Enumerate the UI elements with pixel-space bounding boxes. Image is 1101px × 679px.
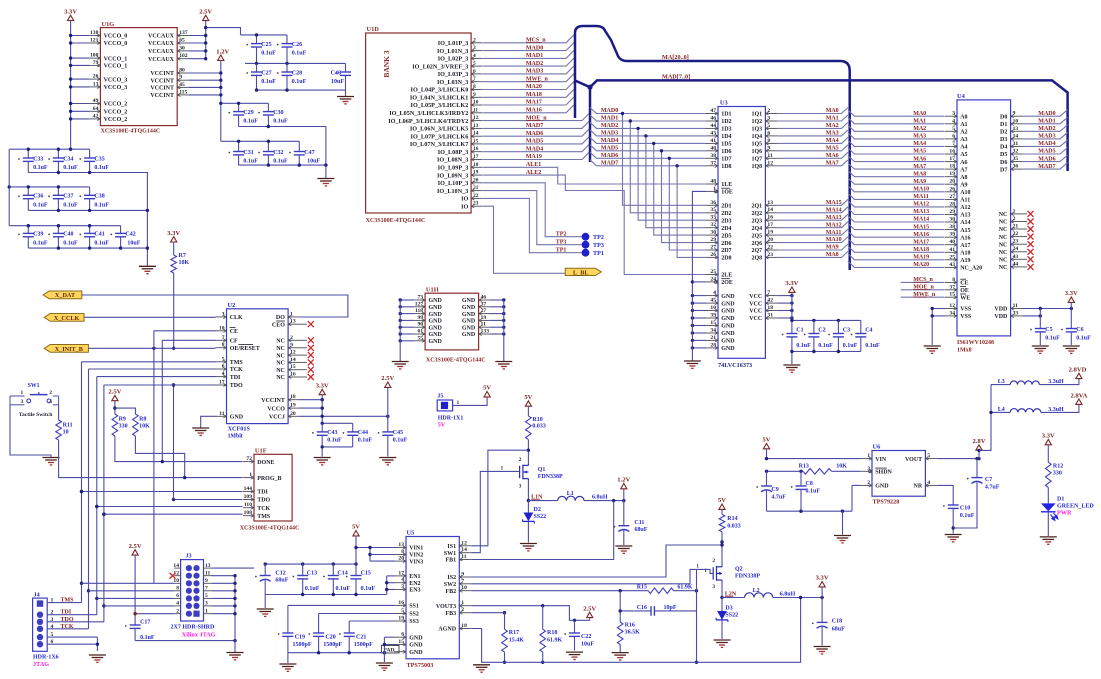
svg-text:0.1uF: 0.1uF bbox=[292, 79, 307, 85]
svg-text:2: 2 bbox=[712, 558, 715, 564]
svg-text:5: 5 bbox=[51, 632, 54, 638]
svg-text:IO_L08P_3: IO_L08P_3 bbox=[438, 149, 469, 156]
svg-text:29: 29 bbox=[949, 209, 955, 215]
wire U1H left pin 127 bbox=[400, 306, 414, 308]
svg-text:MAD1: MAD1 bbox=[601, 116, 618, 122]
ground (U4 VSS) bbox=[924, 346, 941, 353]
wire U1H right pin 37 bbox=[490, 306, 504, 308]
svg-text:NC: NC bbox=[999, 258, 1008, 264]
svg-text:2D4: 2D4 bbox=[721, 226, 731, 232]
svg-text:31: 31 bbox=[1013, 141, 1019, 147]
svg-text:6.8uH: 6.8uH bbox=[780, 592, 796, 598]
svg-text:MAD3: MAD3 bbox=[526, 69, 543, 75]
svg-text:C9: C9 bbox=[771, 487, 778, 493]
svg-text:2D8: 2D8 bbox=[721, 256, 731, 262]
svg-text:1D5: 1D5 bbox=[721, 142, 731, 148]
svg-text:AGND: AGND bbox=[438, 627, 456, 633]
svg-text:0.1uF: 0.1uF bbox=[33, 165, 48, 171]
svg-text:6: 6 bbox=[51, 639, 54, 645]
svg-text:0.1uF: 0.1uF bbox=[261, 51, 276, 57]
port L_BL flag bbox=[565, 268, 601, 275]
ground (U1H left) bbox=[392, 362, 409, 369]
svg-text:19: 19 bbox=[481, 315, 487, 321]
svg-text:10: 10 bbox=[63, 429, 69, 435]
svg-text:U5: U5 bbox=[407, 530, 415, 537]
svg-text:NC: NC bbox=[276, 375, 285, 381]
svg-text:30: 30 bbox=[179, 45, 185, 51]
svg-text:C16: C16 bbox=[637, 605, 647, 611]
wire J3 pin2 row (2.5V) bbox=[135, 613, 174, 615]
svg-text:5: 5 bbox=[767, 123, 770, 129]
svg-text:0.1uF: 0.1uF bbox=[327, 438, 342, 444]
op U1H FPGA ground pins (XC3S100E-4TQG144C) bbox=[425, 293, 479, 350]
ground (C19-C21) bbox=[279, 664, 296, 671]
svg-text:IO_L05N_3/LHCLK3/IRDY2: IO_L05N_3/LHCLK3/IRDY2 bbox=[389, 110, 468, 117]
svg-text:C41: C41 bbox=[94, 232, 104, 238]
svg-text:NR: NR bbox=[914, 484, 923, 490]
svg-text:34: 34 bbox=[710, 328, 716, 334]
svg-text:C19: C19 bbox=[295, 635, 305, 641]
svg-text:5: 5 bbox=[401, 608, 404, 614]
resistor R15 61.9K bbox=[648, 588, 673, 594]
svg-text:XC3S100E-4TQG144C: XC3S100E-4TQG144C bbox=[240, 525, 300, 531]
svg-text:CE: CE bbox=[960, 281, 968, 287]
svg-text:PROG_B: PROG_B bbox=[257, 476, 281, 482]
svg-text:1: 1 bbox=[696, 564, 699, 570]
svg-text:1: 1 bbox=[21, 390, 24, 396]
svg-text:0.1uF: 0.1uF bbox=[336, 586, 351, 592]
wire row3 bottom rail bbox=[28, 247, 147, 249]
wire Q1 source to L1N node bbox=[527, 480, 529, 501]
svg-text:A16: A16 bbox=[960, 235, 970, 241]
svg-text:23: 23 bbox=[767, 252, 773, 258]
svg-text:OE: OE bbox=[960, 288, 969, 294]
svg-text:2OE: 2OE bbox=[721, 280, 733, 286]
svg-text:2Q6: 2Q6 bbox=[752, 241, 763, 247]
svg-text:1Q5: 1Q5 bbox=[752, 142, 763, 148]
svg-text:R11: R11 bbox=[63, 422, 73, 428]
svg-text:61.9K: 61.9K bbox=[677, 584, 693, 590]
op U2 XCF01S config PROM bbox=[227, 309, 289, 424]
svg-text:MAD3: MAD3 bbox=[1038, 134, 1055, 140]
svg-text:22: 22 bbox=[473, 193, 479, 199]
wire U5 SS3 to C21 bbox=[349, 620, 394, 622]
svg-text:102: 102 bbox=[179, 53, 188, 59]
svg-text:2Q5: 2Q5 bbox=[752, 233, 763, 239]
wire R15 to Q2 gate net bbox=[674, 590, 697, 592]
svg-text:Q2: Q2 bbox=[735, 566, 743, 572]
svg-text:VCCJ: VCCJ bbox=[269, 415, 285, 421]
svg-text:61: 61 bbox=[418, 329, 424, 335]
svg-text:MA9: MA9 bbox=[913, 179, 926, 185]
wire MAD4 branch to 2D5 bbox=[654, 143, 706, 235]
svg-text:FB1: FB1 bbox=[445, 558, 456, 564]
resistor R9 330 bbox=[112, 414, 118, 436]
svg-text:1.2V: 1.2V bbox=[216, 48, 229, 55]
svg-text:C44: C44 bbox=[358, 430, 368, 436]
svg-text:TCK: TCK bbox=[257, 506, 270, 512]
capacitor C32 bbox=[258, 152, 260, 154]
svg-text:NC: NC bbox=[999, 220, 1008, 226]
wire 2.5V vertical to VCCAUX pins bbox=[205, 21, 207, 59]
op U1G FPGA bank (XC3S100E-4TQG144C) bbox=[100, 28, 177, 126]
wire MAD3 branch to 2D4 bbox=[646, 136, 706, 228]
wire L3 to 2.8VD bbox=[1039, 379, 1079, 385]
wire TMS vertical bbox=[81, 362, 83, 603]
svg-text:SS2: SS2 bbox=[409, 612, 419, 618]
capacitor C37 bbox=[48, 195, 50, 197]
svg-text:A12: A12 bbox=[960, 205, 970, 211]
svg-text:3: 3 bbox=[21, 399, 24, 405]
wire net MA15 from 2Q bbox=[777, 199, 848, 205]
svg-text:MA0: MA0 bbox=[826, 108, 839, 114]
svg-text:20: 20 bbox=[767, 237, 773, 243]
svg-text:GND: GND bbox=[721, 346, 735, 352]
svg-text:2: 2 bbox=[51, 610, 54, 616]
capacitor C38 bbox=[79, 195, 81, 197]
svg-text:2D5: 2D5 bbox=[721, 233, 731, 239]
svg-text:VCCINT: VCCINT bbox=[150, 86, 174, 92]
svg-text:3: 3 bbox=[767, 116, 770, 122]
svg-text:6: 6 bbox=[176, 593, 179, 599]
wire FB1 to 1.2V node bbox=[471, 501, 613, 560]
svg-text:IO_L01N_3: IO_L01N_3 bbox=[437, 48, 468, 55]
svg-text:10uF: 10uF bbox=[127, 241, 140, 247]
svg-text:TP3: TP3 bbox=[593, 242, 604, 249]
svg-text:A0: A0 bbox=[960, 114, 967, 120]
svg-text:J3: J3 bbox=[185, 553, 191, 560]
svg-text:TP3: TP3 bbox=[556, 239, 567, 245]
svg-text:14: 14 bbox=[1013, 133, 1019, 139]
wire VCCAUX pin 102 bbox=[188, 58, 206, 60]
svg-text:FDN338P: FDN338P bbox=[735, 574, 760, 580]
svg-text:NC: NC bbox=[999, 242, 1008, 248]
wire net MA13 from 2Q bbox=[777, 214, 848, 220]
svg-text:VDD: VDD bbox=[994, 314, 1008, 320]
svg-text:IS1: IS1 bbox=[447, 544, 456, 550]
svg-text:9: 9 bbox=[179, 75, 182, 81]
wire C19-C21 bottom rail bbox=[288, 652, 385, 654]
diode D2 SS22 bbox=[527, 501, 529, 513]
wire J3 pin13 row bbox=[212, 567, 254, 569]
wire net MA12 to U4 bbox=[848, 201, 945, 207]
svg-text:3: 3 bbox=[473, 45, 476, 51]
ground (C18) bbox=[814, 647, 831, 654]
svg-text:0.1uF: 0.1uF bbox=[94, 240, 109, 246]
svg-text:10uF: 10uF bbox=[581, 641, 594, 647]
svg-text:A1: A1 bbox=[960, 122, 967, 128]
svg-text:MA15: MA15 bbox=[913, 224, 929, 230]
svg-text:GND: GND bbox=[230, 415, 244, 421]
svg-text:A8: A8 bbox=[960, 175, 967, 181]
svg-text:20: 20 bbox=[473, 177, 479, 183]
transistor Q1 FDN338P bbox=[520, 464, 529, 480]
svg-text:VCCO_1: VCCO_1 bbox=[104, 56, 128, 62]
svg-text:C31: C31 bbox=[243, 150, 253, 156]
svg-text:38: 38 bbox=[710, 153, 716, 159]
svg-text:8: 8 bbox=[952, 277, 955, 283]
svg-text:MA6: MA6 bbox=[913, 156, 926, 162]
svg-text:2: 2 bbox=[461, 607, 464, 613]
wire net MAD1 to bus bbox=[482, 50, 574, 58]
svg-text:37: 37 bbox=[949, 284, 955, 290]
wire VCCO pin 49 bbox=[71, 103, 90, 105]
svg-text:J5: J5 bbox=[437, 393, 443, 400]
wire J4 pin 2 bbox=[47, 614, 97, 616]
capacitor C45 bbox=[387, 387, 389, 432]
wire Q1 gate to SW1 bbox=[471, 471, 519, 552]
svg-text:C29: C29 bbox=[243, 110, 253, 116]
svg-text:U2: U2 bbox=[228, 302, 236, 309]
svg-text:12: 12 bbox=[949, 303, 955, 309]
svg-text:C7: C7 bbox=[985, 477, 992, 483]
svg-text:C13: C13 bbox=[307, 571, 317, 577]
svg-text:TP1: TP1 bbox=[556, 247, 567, 253]
wire U2 TMS row bbox=[82, 361, 216, 363]
svg-text:11: 11 bbox=[1013, 303, 1018, 309]
no-connect X on U4 NC pin 1 bbox=[1023, 213, 1027, 215]
svg-text:1Q1: 1Q1 bbox=[752, 112, 763, 118]
svg-text:16: 16 bbox=[398, 600, 404, 606]
svg-text:NC: NC bbox=[999, 265, 1008, 271]
svg-text:TMS: TMS bbox=[61, 598, 75, 604]
svg-text:1Q2: 1Q2 bbox=[752, 119, 763, 125]
svg-text:1500pF: 1500pF bbox=[323, 642, 342, 648]
svg-text:MAD3: MAD3 bbox=[601, 131, 618, 137]
svg-text:79: 79 bbox=[93, 60, 99, 66]
no-connect X on U4 NC pin 23 bbox=[1023, 243, 1027, 245]
svg-text:16: 16 bbox=[949, 149, 955, 155]
svg-text:37: 37 bbox=[481, 301, 487, 307]
svg-text:A5: A5 bbox=[960, 152, 967, 158]
capacitor C44 bbox=[343, 432, 345, 434]
svg-text:MAD7: MAD7 bbox=[1038, 164, 1055, 170]
svg-text:GND: GND bbox=[721, 301, 735, 307]
capacitor C43 bbox=[322, 422, 353, 424]
wire VCCO pin 138 bbox=[71, 35, 90, 37]
capacitor C12 68uF bbox=[255, 576, 257, 578]
wire U3 VCC pin 42 bbox=[777, 302, 792, 304]
svg-text:D1: D1 bbox=[1057, 497, 1064, 503]
svg-text:VIN2: VIN2 bbox=[409, 553, 423, 559]
svg-text:19: 19 bbox=[767, 230, 773, 236]
svg-text:TMS: TMS bbox=[230, 360, 244, 366]
wire net MCS_n to bus bbox=[482, 35, 574, 43]
wire net MA15 to U4 bbox=[848, 224, 945, 230]
svg-text:C20: C20 bbox=[325, 635, 335, 641]
svg-text:20: 20 bbox=[398, 556, 404, 562]
svg-text:1Q3: 1Q3 bbox=[752, 127, 763, 133]
svg-text:GND: GND bbox=[875, 484, 889, 490]
svg-text:D7: D7 bbox=[1000, 167, 1007, 173]
svg-text:330: 330 bbox=[119, 423, 128, 429]
svg-text:R12: R12 bbox=[1053, 463, 1063, 469]
wire net MA10 from 2Q bbox=[777, 237, 848, 243]
wire J4 pin 5 bbox=[47, 636, 97, 638]
capacitor C22 10uF bbox=[564, 633, 566, 635]
wire U5 EN pins rail bbox=[387, 575, 395, 577]
wire VCCAUX pin 65 bbox=[188, 42, 206, 44]
capacitor C35 bbox=[79, 158, 81, 160]
svg-text:6: 6 bbox=[473, 68, 476, 74]
wire IO pin to L_BL flag bbox=[482, 206, 565, 273]
svg-text:10K: 10K bbox=[139, 423, 150, 429]
svg-text:21: 21 bbox=[1013, 224, 1019, 230]
wire net MAD0 from U4 bbox=[1023, 110, 1068, 117]
port X_DAT bbox=[43, 291, 82, 299]
svg-text:CF: CF bbox=[230, 339, 238, 345]
ground (C5) bbox=[1032, 346, 1049, 353]
svg-text:21: 21 bbox=[473, 185, 479, 191]
svg-text:MA16: MA16 bbox=[526, 108, 542, 114]
wire net MA2 bbox=[777, 122, 848, 128]
svg-text:22: 22 bbox=[1013, 231, 1019, 237]
wire U1H right pin 19 bbox=[490, 319, 504, 321]
svg-text:MAD0: MAD0 bbox=[526, 45, 543, 51]
wire TDO vertical bbox=[103, 385, 105, 622]
svg-text:A9: A9 bbox=[960, 182, 967, 188]
wire CF row bbox=[162, 339, 215, 341]
svg-text:TDO: TDO bbox=[257, 498, 270, 504]
wire D1 to ground bbox=[1047, 512, 1049, 536]
bus MA[20..0] bbox=[575, 26, 850, 270]
svg-text:J4: J4 bbox=[34, 591, 40, 598]
svg-text:R14: R14 bbox=[727, 516, 737, 522]
svg-text:25: 25 bbox=[949, 254, 955, 260]
svg-text:TMS: TMS bbox=[257, 514, 271, 520]
wire MAD7 branch to 2D8 bbox=[677, 166, 706, 258]
svg-text:15: 15 bbox=[710, 320, 716, 326]
svg-text:4: 4 bbox=[401, 577, 404, 583]
svg-text:C18: C18 bbox=[832, 619, 842, 625]
svg-text:3: 3 bbox=[205, 601, 208, 607]
svg-text:2: 2 bbox=[176, 608, 179, 614]
svg-text:10K: 10K bbox=[836, 464, 847, 470]
svg-text:VIN: VIN bbox=[875, 457, 887, 463]
no-connect X on J3 pin 12 bbox=[170, 573, 176, 579]
svg-text:2: 2 bbox=[867, 480, 870, 486]
wire U3 VCC pin 7 bbox=[777, 295, 792, 297]
svg-text:18: 18 bbox=[949, 164, 955, 170]
svg-text:NC: NC bbox=[999, 235, 1008, 241]
svg-text:19: 19 bbox=[398, 616, 404, 622]
svg-text:90: 90 bbox=[418, 322, 424, 328]
svg-text:2Q4: 2Q4 bbox=[752, 226, 763, 232]
svg-text:1D7: 1D7 bbox=[721, 157, 731, 163]
svg-text:1Q7: 1Q7 bbox=[752, 157, 763, 163]
svg-text:10: 10 bbox=[461, 585, 467, 591]
svg-text:U4: U4 bbox=[957, 93, 966, 100]
svg-text:9: 9 bbox=[205, 578, 208, 584]
svg-text:IO: IO bbox=[461, 203, 468, 210]
svg-text:VOUT: VOUT bbox=[905, 457, 922, 463]
inductor L1 6.8uH bbox=[528, 500, 557, 502]
wire U1H left ground rail bbox=[399, 300, 401, 361]
wire net MAD6 from U4 bbox=[1023, 155, 1068, 162]
wire net MA10 to U4 bbox=[848, 186, 945, 192]
wire net MA1 bbox=[777, 115, 848, 121]
svg-text:VCCAUX: VCCAUX bbox=[148, 34, 175, 40]
svg-text:MA14: MA14 bbox=[913, 217, 929, 223]
wire net MA8 from 2Q bbox=[777, 251, 848, 257]
svg-text:18: 18 bbox=[767, 305, 773, 311]
svg-text:MA4: MA4 bbox=[913, 141, 926, 147]
svg-text:C27: C27 bbox=[261, 70, 271, 76]
no-connect X on U4 NC pin 21 bbox=[1023, 228, 1027, 230]
wire net MA20 to bus bbox=[482, 82, 574, 90]
svg-text:5: 5 bbox=[952, 126, 955, 132]
svg-text:C28: C28 bbox=[292, 70, 302, 76]
wire U1F TCK row bbox=[97, 506, 243, 508]
port X_INIT_B bbox=[44, 345, 88, 353]
op U3 latch 74LVC16373 bbox=[718, 107, 765, 359]
svg-text:11: 11 bbox=[205, 570, 210, 576]
svg-text:4: 4 bbox=[927, 480, 930, 486]
svg-text:VCCINT: VCCINT bbox=[150, 93, 174, 99]
inductor L4 3.3uH bbox=[991, 411, 1010, 413]
svg-text:A19: A19 bbox=[960, 258, 970, 264]
svg-text:C33: C33 bbox=[33, 156, 43, 162]
wire net MCS_n to U4 bbox=[901, 281, 945, 283]
svg-text:48: 48 bbox=[710, 179, 716, 185]
svg-text:12: 12 bbox=[290, 350, 296, 356]
svg-text:IS61WV10248: IS61WV10248 bbox=[957, 340, 994, 346]
svg-text:3: 3 bbox=[952, 111, 955, 117]
wire U1F TDI row bbox=[82, 491, 243, 493]
ground (C1-C4) bbox=[783, 365, 800, 372]
svg-text:NC_A20: NC_A20 bbox=[960, 266, 982, 272]
svg-text:MA4: MA4 bbox=[826, 138, 839, 144]
svg-text:SS3: SS3 bbox=[409, 619, 419, 625]
svg-text:31: 31 bbox=[767, 313, 773, 319]
svg-text:0.1uF: 0.1uF bbox=[796, 343, 811, 349]
wire U2 GND pin to ground bbox=[201, 416, 216, 427]
svg-text:R17: R17 bbox=[509, 630, 519, 636]
svg-text:14: 14 bbox=[767, 207, 773, 213]
capacitor C18 68uF bbox=[812, 623, 814, 625]
wire 2.5V to C17 bbox=[134, 555, 136, 625]
svg-text:C17: C17 bbox=[140, 619, 150, 625]
svg-text:D1: D1 bbox=[1000, 122, 1007, 128]
svg-text:MAD1: MAD1 bbox=[526, 53, 543, 59]
no-connect X on U4 NC pin 24 bbox=[1023, 251, 1027, 253]
svg-text:PWR: PWR bbox=[1057, 510, 1072, 517]
svg-text:MA12: MA12 bbox=[826, 222, 842, 228]
wire net MA0 bbox=[777, 108, 848, 114]
svg-text:C25: C25 bbox=[261, 42, 271, 48]
svg-text:2LE: 2LE bbox=[721, 273, 732, 279]
wire row C31 bottom rail bbox=[239, 165, 326, 178]
svg-text:SW1: SW1 bbox=[28, 383, 40, 389]
capacitor C5 bbox=[1030, 329, 1032, 331]
ground (U1H right) bbox=[495, 362, 512, 369]
wire IO_L10N_3 to TP3 bbox=[482, 191, 581, 245]
svg-text:26: 26 bbox=[949, 186, 955, 192]
svg-text:0.1uF: 0.1uF bbox=[292, 51, 307, 57]
capacitor C21 1500pF bbox=[339, 633, 341, 635]
wire net MAD3 from U4 bbox=[1023, 132, 1068, 139]
wire U5 SS2 to C20 bbox=[319, 613, 395, 615]
wire J3 ground rail bbox=[212, 575, 235, 577]
svg-text:VCC: VCC bbox=[749, 309, 762, 315]
svg-text:15: 15 bbox=[398, 639, 404, 645]
svg-text:MAD7: MAD7 bbox=[526, 123, 543, 129]
svg-text:U1F: U1F bbox=[255, 447, 267, 454]
svg-text:61.9K: 61.9K bbox=[547, 638, 563, 644]
svg-text:VCCO_3: VCCO_3 bbox=[104, 85, 128, 91]
wire net MAD7 from U4 bbox=[1023, 163, 1068, 170]
diode D3 SS22 bbox=[721, 598, 723, 612]
